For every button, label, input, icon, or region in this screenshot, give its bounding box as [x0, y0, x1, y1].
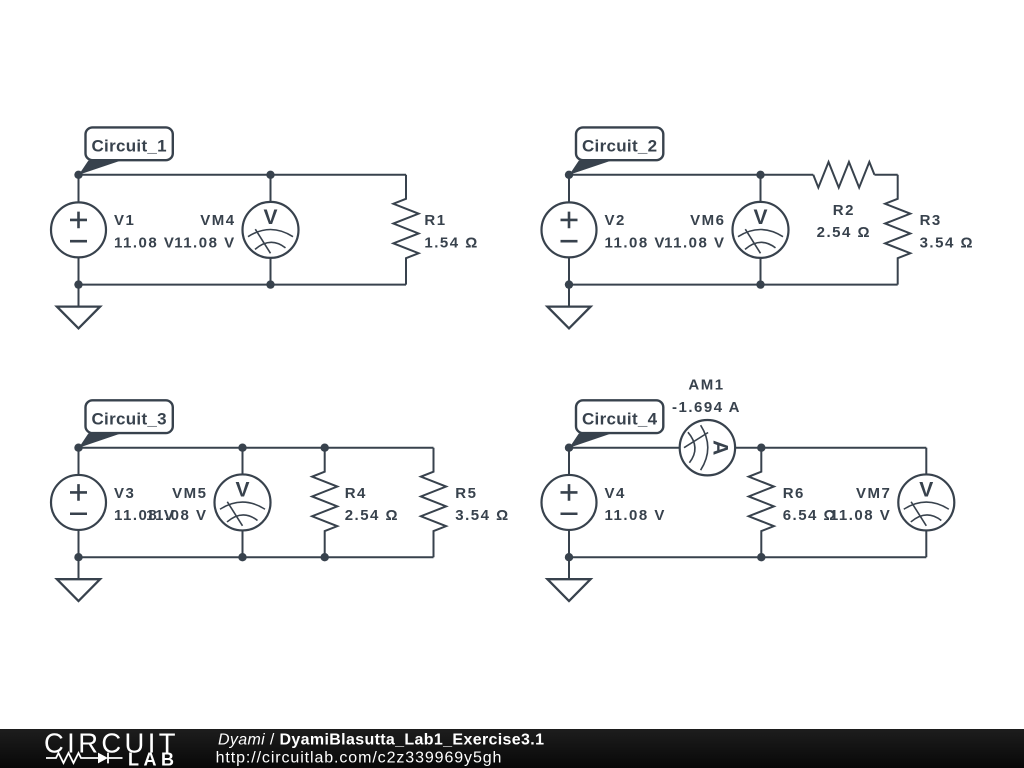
- svg-text:11.08 V: 11.08 V: [605, 234, 666, 251]
- svg-text:11.08 V: 11.08 V: [174, 234, 235, 251]
- svg-text:R5: R5: [455, 485, 477, 502]
- svg-text:V: V: [919, 479, 933, 502]
- svg-text:-1.694 A: -1.694 A: [672, 399, 741, 416]
- svg-text:R4: R4: [345, 485, 367, 502]
- svg-text:VM6: VM6: [690, 212, 725, 229]
- svg-text:V4: V4: [605, 485, 626, 502]
- svg-text:A: A: [708, 440, 731, 455]
- svg-text:R6: R6: [783, 485, 805, 502]
- svg-text:http://circuitlab.com/c2z33996: http://circuitlab.com/c2z339969y5gh: [216, 750, 503, 767]
- svg-text:R1: R1: [424, 212, 446, 229]
- svg-text:V: V: [235, 479, 249, 502]
- svg-text:11.08 V: 11.08 V: [114, 234, 175, 251]
- svg-text:V: V: [753, 206, 767, 229]
- svg-text:VM4: VM4: [200, 212, 235, 229]
- svg-text:2.54 Ω: 2.54 Ω: [817, 224, 871, 241]
- svg-text:3.54 Ω: 3.54 Ω: [455, 507, 509, 524]
- svg-text:V1: V1: [114, 212, 135, 229]
- svg-text:3.54 Ω: 3.54 Ω: [920, 234, 974, 251]
- svg-text:11.08 V: 11.08 V: [146, 507, 207, 524]
- svg-text:11.08 V: 11.08 V: [605, 507, 666, 524]
- svg-text:2.54 Ω: 2.54 Ω: [345, 507, 399, 524]
- svg-text:R3: R3: [920, 212, 942, 229]
- svg-text:AM1: AM1: [688, 377, 724, 394]
- svg-text:Circuit_2: Circuit_2: [582, 136, 657, 155]
- svg-text:V2: V2: [605, 212, 626, 229]
- svg-text:11.08 V: 11.08 V: [664, 234, 725, 251]
- svg-text:1.54 Ω: 1.54 Ω: [424, 234, 478, 251]
- svg-text:R2: R2: [833, 202, 855, 219]
- svg-text:Dyami / DyamiBlasutta_Lab1_Exe: Dyami / DyamiBlasutta_Lab1_Exercise3.1: [218, 732, 544, 749]
- svg-text:VM5: VM5: [172, 485, 207, 502]
- svg-text:VM7: VM7: [856, 485, 891, 502]
- svg-text:V3: V3: [114, 485, 135, 502]
- svg-text:V: V: [263, 206, 277, 229]
- svg-text:Circuit_3: Circuit_3: [91, 409, 166, 428]
- svg-text:LAB: LAB: [128, 750, 179, 768]
- svg-text:Circuit_1: Circuit_1: [91, 136, 166, 155]
- svg-text:Circuit_4: Circuit_4: [582, 409, 658, 428]
- svg-text:11.08 V: 11.08 V: [830, 507, 891, 524]
